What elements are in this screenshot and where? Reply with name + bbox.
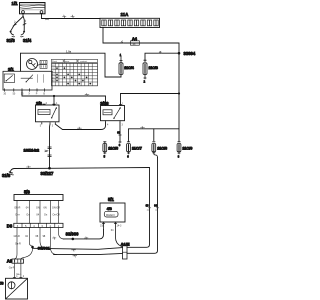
svg-text:10/114:2: 10/114:2 (24, 148, 40, 153)
svg-text:11C/8: 11C/8 (157, 147, 167, 151)
svg-text:1/1: 1/1 (12, 1, 19, 6)
node 33/227 (48, 167, 51, 170)
ground 31/8 (9, 172, 13, 175)
fuse 11C/7 (127, 142, 131, 154)
ignition switch position table (52, 59, 98, 86)
wires below D8 (14, 228, 64, 260)
svg-text:On-Off: On-Off (53, 213, 60, 216)
svg-text:5/1: 5/1 (108, 197, 114, 202)
svg-text:contact: contact (80, 60, 87, 63)
svg-text:11C/3: 11C/3 (149, 66, 158, 70)
svg-text:11A: 11A (121, 12, 130, 17)
wire battery negative to grounds (11, 13, 26, 30)
svg-text:31/4: 31/4 (23, 38, 32, 43)
ground 31/3 (10, 31, 15, 37)
svg-text:31E: 31E (100, 225, 105, 228)
wire relay 3/38 output pin (119, 123, 121, 143)
wire fuse 11C/8 to connector A1 bottom (127, 158, 159, 254)
node 33/360 wire to rheostat (53, 230, 104, 240)
svg-text:6N: 6N (44, 207, 47, 210)
wire battery positive to fuse row 11A (42, 13, 101, 19)
svg-text:11C/6: 11C/6 (108, 147, 118, 151)
svg-text:11C/9: 11C/9 (182, 147, 192, 151)
fuse 11C/3 (143, 63, 147, 79)
svg-text:31/3: 31/3 (7, 38, 16, 43)
wire feed to relay 3/38 (121, 94, 180, 106)
wire relay 2/6 to relay 3/38 coil (55, 123, 105, 130)
fuse bus wire 44 (129, 126, 180, 142)
svg-text:GN: GN (36, 207, 40, 210)
svg-text:term: term (65, 60, 70, 63)
svg-text:RHEO: RHEO (106, 213, 115, 217)
ground 31/4 (21, 31, 26, 37)
fuse 11C/6 (103, 142, 107, 155)
svg-text:GN-R: GN-R (14, 235, 20, 238)
svg-text:D8: D8 (7, 223, 13, 228)
wire switch to relays (22, 90, 106, 106)
ignition switch key symbol (27, 59, 48, 70)
wire fuse row to connector A4 and node 33094 (103, 28, 179, 44)
svg-text:14-3: 14-3 (117, 225, 122, 228)
wire node to fuse 11C/3 (144, 51, 179, 61)
svg-text:Posit: Posit (52, 60, 57, 63)
svg-text:33/227: 33/227 (41, 171, 54, 176)
fuse 11C/9 (177, 142, 181, 154)
wire 33/227 to connector A1 top (127, 168, 151, 248)
svg-text:11C/4: 11C/4 (124, 66, 133, 70)
svg-text:5/3: 5/3 (24, 190, 30, 195)
wire right vertical feed (178, 43, 180, 129)
battery 1/1 (20, 3, 46, 14)
ignition switch contact box (3, 71, 52, 91)
svg-text:GN-GR: GN-GR (52, 207, 60, 210)
ground wire 31/8 with node 33/227 (11, 166, 150, 172)
node 33094 (178, 52, 181, 55)
fuse 11C/8 (152, 142, 158, 158)
svg-text:Ga-R: Ga-R (15, 243, 21, 246)
svg-text:33/301: 33/301 (38, 245, 51, 250)
svg-text:7/8: 7/8 (0, 282, 4, 286)
svg-text:31/8: 31/8 (2, 173, 11, 178)
svg-text:4/6: 4/6 (107, 207, 112, 211)
ignition switch 3/1 outer (20, 53, 22, 71)
fuse 11C/4 (119, 57, 123, 75)
svg-text:GN-R: GN-R (14, 207, 20, 210)
fuse row 11A (100, 18, 160, 27)
svg-text:1.0a: 1.0a (66, 49, 72, 53)
svg-text:32: 32 (133, 42, 137, 46)
wire relay 2/6 to connector 10/114:2 and node 33/227 (48, 124, 52, 168)
svg-text:33094: 33094 (184, 51, 196, 56)
wire D8 to connector A1 bottom (54, 253, 123, 257)
svg-text:On+: On+ (15, 213, 20, 216)
wire ignition feed 15 (21, 49, 122, 77)
wire 33/301 to connector A1 top (33, 248, 123, 252)
svg-text:33/360: 33/360 (66, 232, 79, 237)
node 33/301 (31, 246, 34, 249)
svg-text:Ga-R: Ga-R (9, 267, 15, 270)
svg-text:11C/7: 11C/7 (132, 147, 142, 151)
